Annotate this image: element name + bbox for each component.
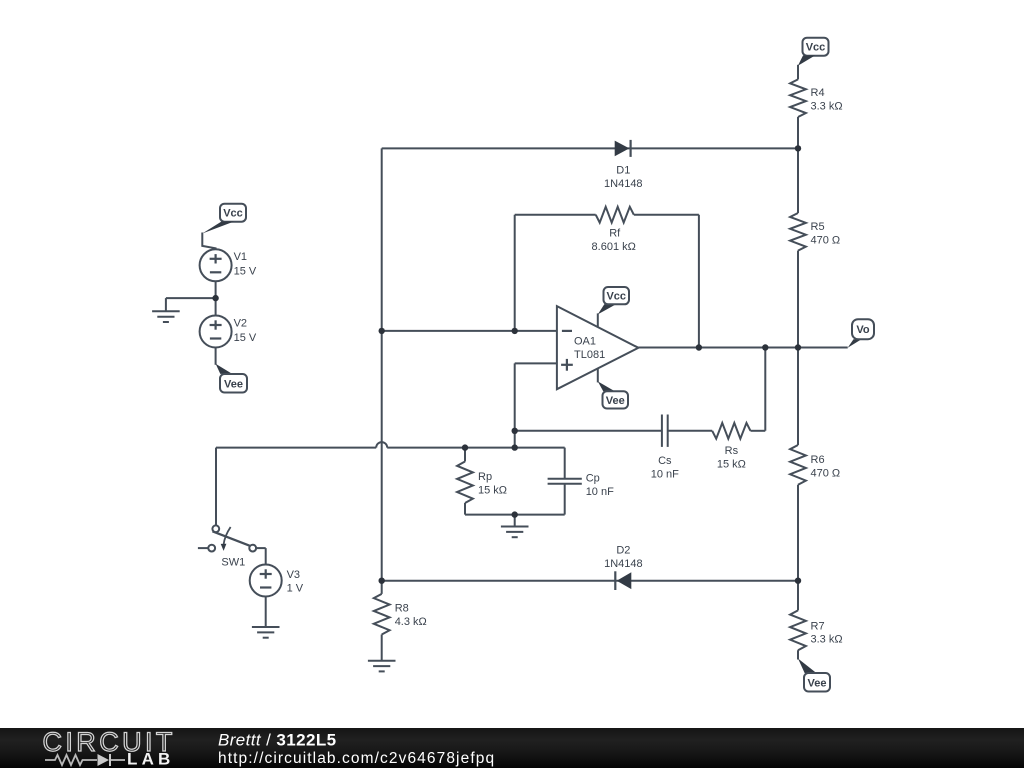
svg-text:V3: V3 xyxy=(287,569,300,581)
svg-text:1 V: 1 V xyxy=(287,582,304,594)
svg-text:TL081: TL081 xyxy=(574,349,605,361)
svg-text:Vee: Vee xyxy=(808,677,827,689)
svg-text:D2: D2 xyxy=(616,545,630,557)
svg-text:8.601 kΩ: 8.601 kΩ xyxy=(592,241,636,253)
svg-text:R8: R8 xyxy=(395,603,409,615)
svg-text:15 V: 15 V xyxy=(234,332,257,344)
svg-text:Vee: Vee xyxy=(606,395,625,407)
svg-text:10 nF: 10 nF xyxy=(586,486,614,498)
svg-text:Vcc: Vcc xyxy=(223,208,243,220)
svg-text:Vcc: Vcc xyxy=(806,42,826,54)
svg-text:15 kΩ: 15 kΩ xyxy=(478,484,507,496)
svg-text:1N4148: 1N4148 xyxy=(604,178,643,190)
svg-text:OA1: OA1 xyxy=(574,336,596,348)
svg-text:V1: V1 xyxy=(234,251,247,263)
svg-text:R5: R5 xyxy=(811,221,825,233)
svg-text:1N4148: 1N4148 xyxy=(604,558,643,570)
svg-text:3.3 kΩ: 3.3 kΩ xyxy=(811,634,843,646)
svg-text:Brettt / 3122L5: Brettt / 3122L5 xyxy=(218,731,336,750)
svg-text:http://circuitlab.com/c2v64678: http://circuitlab.com/c2v64678jefpq xyxy=(218,750,495,767)
svg-text:LAB: LAB xyxy=(127,750,175,768)
svg-text:R4: R4 xyxy=(811,87,825,99)
svg-text:Rf: Rf xyxy=(609,228,621,240)
svg-text:R6: R6 xyxy=(811,454,825,466)
svg-text:470 Ω: 470 Ω xyxy=(811,467,841,479)
svg-text:Vo: Vo xyxy=(856,324,870,336)
svg-text:Rp: Rp xyxy=(478,471,492,483)
svg-text:D1: D1 xyxy=(616,165,630,177)
svg-text:Vcc: Vcc xyxy=(606,291,626,303)
svg-text:10 nF: 10 nF xyxy=(651,469,679,481)
svg-text:3.3 kΩ: 3.3 kΩ xyxy=(811,101,843,113)
svg-text:Vee: Vee xyxy=(224,378,243,390)
svg-text:470 Ω: 470 Ω xyxy=(811,234,841,246)
svg-text:R7: R7 xyxy=(811,620,825,632)
svg-text:SW1: SW1 xyxy=(221,556,245,568)
svg-text:4.3 kΩ: 4.3 kΩ xyxy=(395,616,427,628)
svg-text:Rs: Rs xyxy=(725,445,739,457)
svg-text:V2: V2 xyxy=(234,317,247,329)
svg-text:15 kΩ: 15 kΩ xyxy=(717,458,746,470)
svg-text:15 V: 15 V xyxy=(234,266,257,278)
svg-text:Cs: Cs xyxy=(658,455,672,467)
svg-text:Cp: Cp xyxy=(586,472,600,484)
